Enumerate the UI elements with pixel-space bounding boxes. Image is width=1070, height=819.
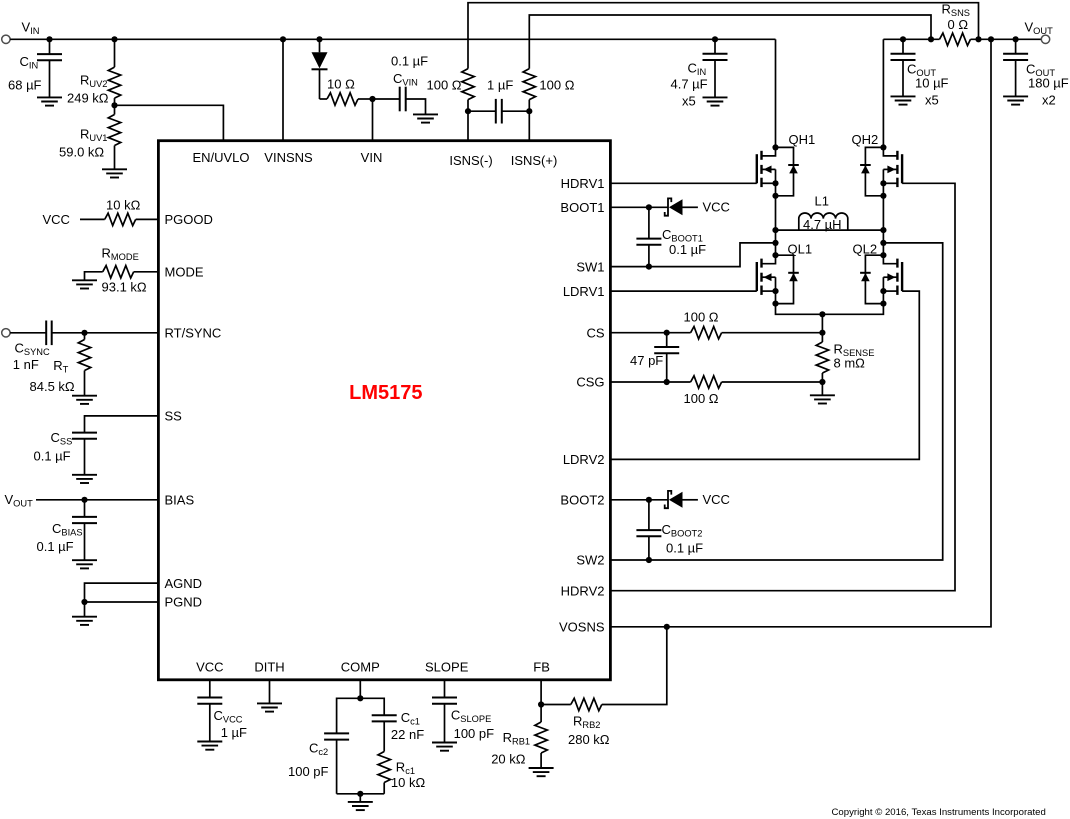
capacitor CVIN 0.1uF — [400, 87, 406, 112]
svg-text:QH2: QH2 — [852, 132, 879, 147]
wire COMP stem — [359, 680, 361, 698]
wire BOOT1 pin — [611, 206, 649, 208]
svg-text:ISNS(+): ISNS(+) — [511, 153, 558, 168]
svg-text:VINSNS: VINSNS — [264, 150, 313, 165]
wire terminal to CSYNC — [10, 332, 46, 334]
wire RSENSE top lead — [821, 314, 823, 342]
svg-text:BOOT1: BOOT1 — [560, 200, 604, 215]
capacitor CBOOT1 0.1uF — [636, 239, 661, 245]
svg-text:180 µF: 180 µF — [1028, 76, 1069, 91]
junction source rail / RSENSE — [819, 311, 825, 317]
svg-text:100 pF: 100 pF — [454, 726, 495, 741]
junction RT node — [81, 330, 87, 336]
junction ISNS+ node — [526, 108, 532, 114]
wire CSG pin lead — [611, 381, 691, 383]
junction comp bottom — [357, 791, 363, 797]
wire output rail right — [971, 38, 1042, 40]
capacitor CSLOPE 100pF — [432, 698, 457, 704]
ground CBIAS — [72, 560, 97, 568]
svg-text:100 Ω: 100 Ω — [427, 78, 462, 93]
svg-text:SLOPE: SLOPE — [425, 660, 469, 675]
wire RSENSE bottom lead — [821, 373, 823, 395]
wire VINSNS riser — [282, 39, 284, 141]
svg-text:LDRV1: LDRV1 — [563, 284, 605, 299]
wire DITH stem — [269, 680, 271, 703]
capacitor Cc2 100pF — [324, 733, 349, 739]
junction UVLO divider node — [111, 102, 117, 108]
junction SW2 wire tap — [880, 240, 886, 246]
wire COUT1 stem — [902, 39, 904, 54]
wire VOUT to BIAS pin — [36, 499, 158, 501]
terminal VIN input — [2, 35, 10, 43]
diode D1 — [312, 39, 328, 99]
junction SW2/L1 — [880, 227, 886, 233]
svg-text:MODE: MODE — [165, 265, 204, 280]
wire CBOOT2 stem bottom — [648, 536, 650, 560]
ground CVIN — [413, 114, 438, 122]
svg-text:BOOT2: BOOT2 — [560, 493, 604, 508]
resistor R3 10k — [105, 213, 136, 225]
wire RUV1 to ground — [114, 146, 116, 170]
wire divider to EN/UVLO pin — [115, 105, 224, 141]
wire RMODE to ground — [85, 272, 103, 281]
wire CBOOT1 stem bottom — [648, 245, 650, 267]
wire AGND pin — [85, 583, 159, 602]
svg-text:47 pF: 47 pF — [630, 353, 663, 368]
svg-text:EN/UVLO: EN/UVLO — [192, 150, 249, 165]
svg-text:VIN: VIN — [361, 150, 383, 165]
svg-text:CSG: CSG — [576, 375, 604, 390]
junction CBOOT2/SW2 wire — [646, 557, 652, 563]
svg-text:20 kΩ: 20 kΩ — [491, 752, 526, 767]
transistor QH1 — [757, 132, 815, 199]
resistor RISNS- 100ohm — [462, 69, 474, 100]
wire CIN stem — [49, 39, 51, 54]
wire QL1 source to sense rail — [776, 304, 884, 315]
ground AGND/PGND — [72, 617, 97, 625]
svg-text:QL1: QL1 — [788, 242, 813, 257]
capacitor CSYNC 1nF — [46, 321, 52, 346]
wire Cc2 to bottom — [336, 740, 338, 794]
junction CBOOT1/SW1 wire — [646, 264, 652, 270]
svg-text:ISNS(-): ISNS(-) — [449, 153, 492, 168]
svg-text:0 Ω: 0 Ω — [948, 17, 969, 32]
resistor R2 10ohm — [327, 93, 358, 105]
svg-text:1 µF: 1 µF — [487, 78, 513, 93]
transistor QL2 — [853, 242, 903, 307]
ground RSENSE — [810, 395, 835, 403]
junction rail/ISNS- sense — [975, 36, 981, 42]
wire VCC to R3 — [80, 218, 105, 220]
wire RRB1 to ground — [540, 753, 542, 768]
wire R2 to VIN node — [358, 98, 373, 100]
capacitor COUT2 180uF x2 — [1003, 54, 1028, 60]
wire RRB2 to VOSNS — [602, 627, 667, 705]
wire CVCC to ground — [209, 704, 211, 742]
capacitor CVCC 1uF — [197, 698, 222, 704]
svg-text:0.1 µF: 0.1 µF — [666, 541, 703, 556]
wire QH1 drain riser — [775, 39, 777, 147]
capacitor CISNS 1uF — [496, 99, 502, 124]
ground DITH — [257, 703, 282, 711]
wire SS pin — [85, 416, 159, 433]
wire CIN2 to ground — [714, 60, 716, 97]
junction VIN/CIN — [46, 36, 52, 42]
ground CIN — [37, 97, 62, 105]
resistor RUV2 249k — [108, 67, 120, 98]
svg-text:84.5 kΩ: 84.5 kΩ — [30, 379, 75, 394]
svg-text:VCC: VCC — [703, 492, 730, 507]
junction SW1 wire tap — [772, 240, 778, 246]
svg-text:249 kΩ: 249 kΩ — [67, 91, 109, 106]
junction CSG node — [819, 379, 825, 385]
junction ISNS- node — [465, 108, 471, 114]
svg-text:x5: x5 — [682, 94, 696, 109]
junction CS/C47p — [664, 330, 670, 336]
wire VCC pin stem — [209, 680, 211, 698]
junction VIN pin node — [369, 96, 375, 102]
inductor L1 4.7uH — [776, 194, 884, 232]
svg-text:SS: SS — [165, 409, 183, 424]
wire ISNS+ sense crossover — [529, 15, 931, 69]
svg-text:COMP: COMP — [341, 660, 380, 675]
junction SW1/L1 — [772, 227, 778, 233]
svg-text:59.0 kΩ: 59.0 kΩ — [59, 145, 104, 160]
resistor Rc1 10k — [378, 752, 390, 783]
wire node to CVIN — [373, 98, 400, 100]
wire Cc1 to Rc1 — [383, 721, 385, 751]
svg-text:1 nF: 1 nF — [13, 357, 39, 372]
svg-text:0.1 µF: 0.1 µF — [391, 54, 428, 69]
capacitor CSS 0.1uF — [72, 433, 97, 439]
svg-text:100 Ω: 100 Ω — [539, 78, 574, 93]
svg-text:8 mΩ: 8 mΩ — [834, 356, 866, 371]
wire SW1 pin — [611, 243, 776, 267]
wire RT top lead — [84, 333, 86, 340]
diode DBOOT2 to VCC — [665, 491, 698, 508]
resistor RRB2 280k — [571, 698, 602, 710]
wire comp bottom join — [337, 793, 385, 795]
wire RMODE to MODE pin — [134, 271, 159, 273]
junction rail/ISNS+ sense — [928, 36, 934, 42]
svg-text:RT/SYNC: RT/SYNC — [165, 326, 222, 341]
wire COUT1 to ground — [902, 60, 904, 96]
svg-text:0.1 µF: 0.1 µF — [37, 539, 74, 554]
capacitor COUT1 10uF x5 — [891, 54, 916, 60]
svg-text:10 µF: 10 µF — [915, 76, 949, 91]
terminal VOUT output — [1041, 35, 1049, 43]
junction FB node — [538, 701, 544, 707]
junction rail/COUT2 — [1013, 36, 1019, 42]
svg-text:4.7 µF: 4.7 µF — [671, 77, 708, 92]
ground CSLOPE — [432, 743, 457, 751]
svg-text:SW2: SW2 — [576, 553, 604, 568]
wire SW2 branch to pin — [611, 243, 943, 560]
svg-text:22 nF: 22 nF — [391, 727, 424, 742]
wire RISNS+ to pin — [528, 100, 530, 141]
svg-text:10 kΩ: 10 kΩ — [391, 775, 426, 790]
wire RUV2 bottom lead — [114, 98, 116, 114]
junction BIAS/CBIAS — [81, 497, 87, 503]
junction BOOT1 node — [646, 204, 652, 210]
ground COUT1 — [891, 96, 916, 104]
svg-text:HDRV2: HDRV2 — [561, 583, 605, 598]
svg-text:100 Ω: 100 Ω — [684, 391, 719, 406]
svg-text:QH1: QH1 — [789, 132, 816, 147]
wire CBOOT2 stem top — [648, 500, 650, 530]
svg-text:CS: CS — [586, 325, 604, 340]
wire FB stem — [540, 680, 542, 722]
wire comp bottom to ground — [359, 794, 361, 802]
wire RUV2 top lead — [114, 39, 116, 67]
wire C1uF to ISNS+ — [502, 110, 530, 112]
capacitor Cc1 22nF — [372, 715, 397, 721]
svg-text:VCC: VCC — [196, 660, 223, 675]
capacitor CIN2 4.7uF x5 — [703, 54, 728, 60]
junction VOSNS/FB — [664, 624, 670, 630]
ground COUT2 — [1003, 96, 1028, 104]
wire FB to RRB2 — [541, 704, 571, 706]
svg-text:x5: x5 — [925, 93, 939, 108]
junction VIN/VINSNS — [280, 36, 286, 42]
transistor QH2 — [852, 132, 903, 199]
wire CBOOT1 stem top — [648, 207, 650, 238]
wire output rail left — [883, 38, 939, 40]
svg-text:HDRV1: HDRV1 — [561, 176, 605, 191]
ground RT — [72, 396, 97, 404]
resistor RT 84.5k — [78, 340, 90, 371]
svg-text:93.1 kΩ: 93.1 kΩ — [102, 280, 147, 295]
junction CSG/C47p — [664, 379, 670, 385]
wire ISNS- sense crossover — [468, 3, 979, 69]
wire CSLOPE to ground — [444, 704, 446, 743]
transistor QL1 — [757, 242, 812, 307]
wire VOSNS pin — [611, 39, 991, 627]
svg-text:QL2: QL2 — [853, 242, 878, 257]
wire COMP left branch — [337, 698, 361, 733]
wire BOOT2 to diode — [649, 499, 668, 501]
wire CSS to ground — [84, 439, 86, 475]
wire Rc1 to bottom — [383, 783, 385, 794]
wire PGND pin — [85, 601, 159, 603]
IC U1 LM5175 controller body — [158, 141, 610, 680]
wire CSYNC to RT node — [52, 332, 159, 334]
svg-text:100 pF: 100 pF — [288, 764, 329, 779]
wire CVIN to ground — [406, 99, 426, 114]
wire SLOPE stem — [444, 680, 446, 698]
wire VIN rail — [10, 38, 775, 40]
svg-text:0.1 µF: 0.1 µF — [34, 449, 71, 464]
capacitor C47pF — [654, 347, 679, 353]
ground CVCC — [197, 742, 222, 750]
svg-text:BIAS: BIAS — [165, 493, 195, 508]
resistor RSNS 0ohm — [940, 33, 971, 45]
terminal RT/SYNC input — [2, 329, 10, 337]
wire C47p stem top — [666, 333, 668, 347]
resistor RUV1 59.0k — [108, 115, 120, 146]
wire SW1 vertical — [775, 196, 777, 255]
svg-text:Copyright © 2016, Texas Instru: Copyright © 2016, Texas Instruments Inco… — [832, 807, 1046, 818]
wire QH2 gate to HDRV2 riser — [611, 183, 955, 590]
svg-text:DITH: DITH — [254, 660, 284, 675]
resistor RISNS+ 100ohm — [523, 69, 535, 100]
svg-text:68 µF: 68 µF — [8, 78, 42, 93]
svg-text:VCC: VCC — [43, 212, 70, 227]
wire CIN2 stem — [714, 39, 716, 54]
svg-text:10 Ω: 10 Ω — [327, 77, 355, 92]
wire CS pin lead — [611, 332, 691, 334]
wire RISNS- to pin — [467, 100, 469, 141]
svg-text:PGND: PGND — [165, 595, 203, 610]
wire CBIAS stem — [84, 500, 86, 517]
svg-text:LDRV2: LDRV2 — [563, 452, 605, 467]
ground CSS — [72, 475, 97, 483]
wire R3 to PGOOD — [136, 218, 159, 220]
junction AGND/PGND — [81, 599, 87, 605]
svg-text:280 kΩ: 280 kΩ — [568, 732, 610, 747]
capacitor CBIAS 0.1uF — [72, 517, 97, 523]
wire RCS to RSENSE — [722, 332, 823, 334]
ground RRB1 — [529, 768, 554, 776]
svg-text:VCC: VCC — [703, 200, 730, 215]
svg-text:10 kΩ: 10 kΩ — [106, 198, 141, 213]
junction VIN/RUV2 — [111, 36, 117, 42]
wire ISNS- to C1uF — [468, 110, 496, 112]
svg-text:LM5175: LM5175 — [349, 382, 422, 404]
wire BOOT1 to diode — [649, 206, 668, 208]
svg-text:4.7 µH: 4.7 µH — [803, 217, 842, 232]
junction CS node — [819, 330, 825, 336]
svg-text:0.1 µF: 0.1 µF — [669, 242, 706, 257]
diode DBOOT1 to VCC — [665, 198, 698, 215]
svg-text:L1: L1 — [815, 194, 829, 209]
wire QH2 drain riser — [882, 39, 884, 147]
svg-text:VOSNS: VOSNS — [559, 620, 605, 635]
junction rail/CIN2 — [712, 36, 718, 42]
wire COMP right branch — [360, 698, 384, 715]
svg-text:100 Ω: 100 Ω — [684, 310, 719, 325]
wire QL2 gate to LDRV2 riser — [611, 291, 919, 459]
ground RUV1 — [102, 169, 127, 177]
wire COUT2 stem — [1015, 39, 1017, 54]
wire COUT2 to ground — [1015, 60, 1017, 96]
wire CBIAS to ground — [84, 523, 86, 560]
resistor RRB1 20k — [535, 722, 547, 753]
wire RT to ground — [84, 371, 86, 396]
junction BOOT2 node — [646, 497, 652, 503]
resistor RCS 100ohm — [691, 327, 722, 339]
capacitor CBOOT2 0.1uF — [636, 530, 661, 536]
svg-text:FB: FB — [533, 660, 550, 675]
wire HDRV1 to QH1 gate — [611, 182, 757, 184]
junction COMP node — [357, 695, 363, 701]
capacitor CIN 68uF — [37, 54, 62, 60]
wire PGND to ground — [84, 602, 86, 617]
junction VIN/D1 — [316, 36, 322, 42]
wire BOOT2 pin — [611, 499, 649, 501]
ground COMP — [348, 802, 373, 810]
ground CIN2 — [703, 97, 728, 105]
svg-text:SW1: SW1 — [576, 259, 604, 274]
wire C47p stem bottom — [666, 353, 668, 382]
svg-text:x2: x2 — [1042, 93, 1056, 108]
resistor RSENSE 8mOhm — [816, 342, 828, 373]
junction rail/VOSNS — [988, 36, 994, 42]
svg-text:PGOOD: PGOOD — [165, 212, 213, 227]
svg-text:AGND: AGND — [165, 576, 203, 591]
wire VIN pin drop — [372, 99, 374, 141]
ground RMODE — [72, 280, 97, 288]
svg-text:1 µF: 1 µF — [221, 725, 247, 740]
wire CIN to ground — [49, 60, 51, 97]
resistor RMODE 93.1k — [103, 266, 134, 278]
wire LDRV1 to QL1 gate — [611, 290, 757, 292]
wire SW2 vertical — [882, 196, 884, 255]
junction rail/COUT1 — [900, 36, 906, 42]
resistor RCSG 100ohm — [691, 376, 722, 388]
wire D1 to R2 — [320, 98, 328, 100]
wire RCSG to RSENSE — [722, 381, 823, 383]
